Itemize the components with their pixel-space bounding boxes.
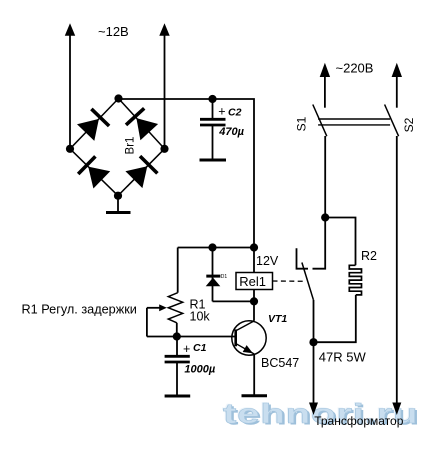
svg-text:C2: C2 [228, 106, 242, 118]
dashed relay actuator link [273, 280, 306, 282]
wire: node to R2 top [325, 218, 355, 266]
capacitor C1 plate bottom [165, 361, 190, 364]
transistor VT1 base bar [234, 329, 237, 346]
wire: node to relay fixed contact [313, 218, 326, 269]
capacitor C1 leads [176, 337, 178, 356]
wire: bridge bottom to ground [117, 196, 119, 212]
bridge rectifier Br1 diamond wires [70, 99, 165, 196]
arrowhead AC right [159, 23, 169, 36]
wire: 12V rail horizontal [178, 247, 254, 249]
bridge diode 4 cathode bar [140, 156, 157, 173]
transistor VT1 emitter diagonal [236, 344, 254, 354]
svg-text:1000µ: 1000µ [184, 363, 215, 375]
switch S2 blade [385, 105, 399, 137]
svg-text:S1: S1 [295, 116, 309, 131]
node S1 branch [321, 213, 329, 221]
wire: blade to lower node [313, 300, 315, 342]
diode D1 branch vertical [212, 248, 214, 302]
ground bar C1 [165, 395, 191, 398]
emitter vertical to ground [253, 354, 255, 395]
arrowhead 220V right [392, 63, 402, 77]
svg-text:Трансформатор: Трансформатор [314, 414, 404, 428]
wire: R2 bottom to node [314, 295, 356, 342]
capacitor C2 plate bottom [200, 124, 226, 127]
flyback diode D1 cathode bar [206, 275, 220, 278]
wire: base wire node to transistor [177, 336, 236, 338]
svg-text:470µ: 470µ [218, 126, 244, 138]
transistor VT1 collector diagonal [236, 321, 254, 331]
wire: S1 vertical above switch [324, 70, 326, 108]
wire: node down to transformer arrow [313, 342, 315, 406]
arrowhead AC left [65, 23, 75, 36]
svg-text:12V: 12V [256, 254, 279, 268]
flyback diode D1 triangle [206, 278, 221, 287]
wire: S2 branch down to transformer arrow [396, 136, 398, 406]
wire: left AC input vertical [69, 30, 71, 149]
bridge diode 2 (right-top) [136, 118, 158, 140]
resistor R1 bottom lead [176, 323, 178, 337]
wire: S1 branch down to node [324, 136, 326, 218]
svg-text:Br1: Br1 [125, 137, 137, 155]
R1 wiper wires [147, 307, 160, 309]
bridge diode 3 cathode bar [78, 156, 95, 174]
relay Rel1 box [236, 273, 273, 290]
node diode top [208, 243, 216, 251]
relay contact blade [302, 263, 314, 300]
node bridge top [114, 94, 122, 102]
node R1 bottom [173, 332, 181, 340]
thick bars [78, 108, 267, 396]
node collector [250, 297, 258, 305]
capacitor C2 plate top [200, 118, 226, 121]
relay Rel1 leads [253, 248, 255, 273]
node R2 bottom [309, 338, 317, 346]
svg-text:D1: D1 [221, 274, 228, 280]
arrowhead 220V left [320, 63, 330, 77]
transistor VT1 body circle [232, 321, 266, 355]
capacitor C2 leads [212, 99, 214, 118]
node C2 top [208, 95, 216, 103]
svg-text:Rel1: Rel1 [239, 274, 266, 289]
wire: S2 vertical above switch [396, 70, 398, 108]
resistor R2 meander [349, 265, 361, 295]
filled parts [65, 23, 402, 415]
bridge diode 2 cathode bar [126, 108, 144, 125]
bridge diode 4 (bottom-right) [125, 166, 147, 188]
ground bar bridge [106, 211, 131, 214]
node bridge right [160, 145, 168, 153]
wire: right AC input vertical [164, 30, 166, 149]
switch gang link double bar [318, 119, 390, 125]
switch S1 blade [313, 105, 327, 137]
svg-text:~12В: ~12В [98, 24, 129, 39]
svg-text:C1: C1 [193, 342, 207, 354]
wire: diode bottom to collector node [213, 300, 255, 302]
node bridge bottom [114, 192, 122, 200]
relay NO fixed contact stub [297, 248, 309, 268]
svg-text:10k: 10k [190, 310, 211, 324]
bridge diode 1 (left-top) [77, 119, 99, 141]
capacitor C1 plate top [165, 355, 190, 358]
svg-text:47R 5W: 47R 5W [319, 349, 367, 364]
resistor R1 zigzag [168, 293, 182, 323]
resistor R1 top lead [177, 248, 179, 293]
svg-text:R1 Регул. задержки: R1 Регул. задержки [22, 303, 137, 317]
svg-text:S2: S2 [402, 117, 416, 132]
emitter arrowhead [243, 345, 253, 353]
svg-text:+: + [183, 342, 190, 356]
wire: collector vertical [253, 301, 255, 320]
watermark tehnori.ru [223, 400, 418, 428]
R1 wiper arrowhead [159, 304, 167, 311]
bridge diode 3 (bottom-left) [88, 167, 110, 189]
arrowhead transformer left (down) [309, 403, 318, 416]
arrowhead transformer right (down) [392, 403, 401, 416]
svg-text:+: + [218, 105, 225, 119]
svg-text:R2: R2 [361, 249, 377, 263]
svg-text:BC547: BC547 [261, 356, 299, 370]
wire: top DC+ rail from bridge to corner [119, 99, 255, 248]
svg-text:~220В: ~220В [336, 60, 374, 75]
node rail corner [250, 243, 258, 251]
svg-text:VT1: VT1 [268, 313, 287, 325]
node bridge left [66, 145, 74, 153]
bridge diode 1 cathode bar [91, 109, 109, 126]
ground bar emitter [242, 394, 268, 397]
ground bar C2 [200, 159, 227, 162]
